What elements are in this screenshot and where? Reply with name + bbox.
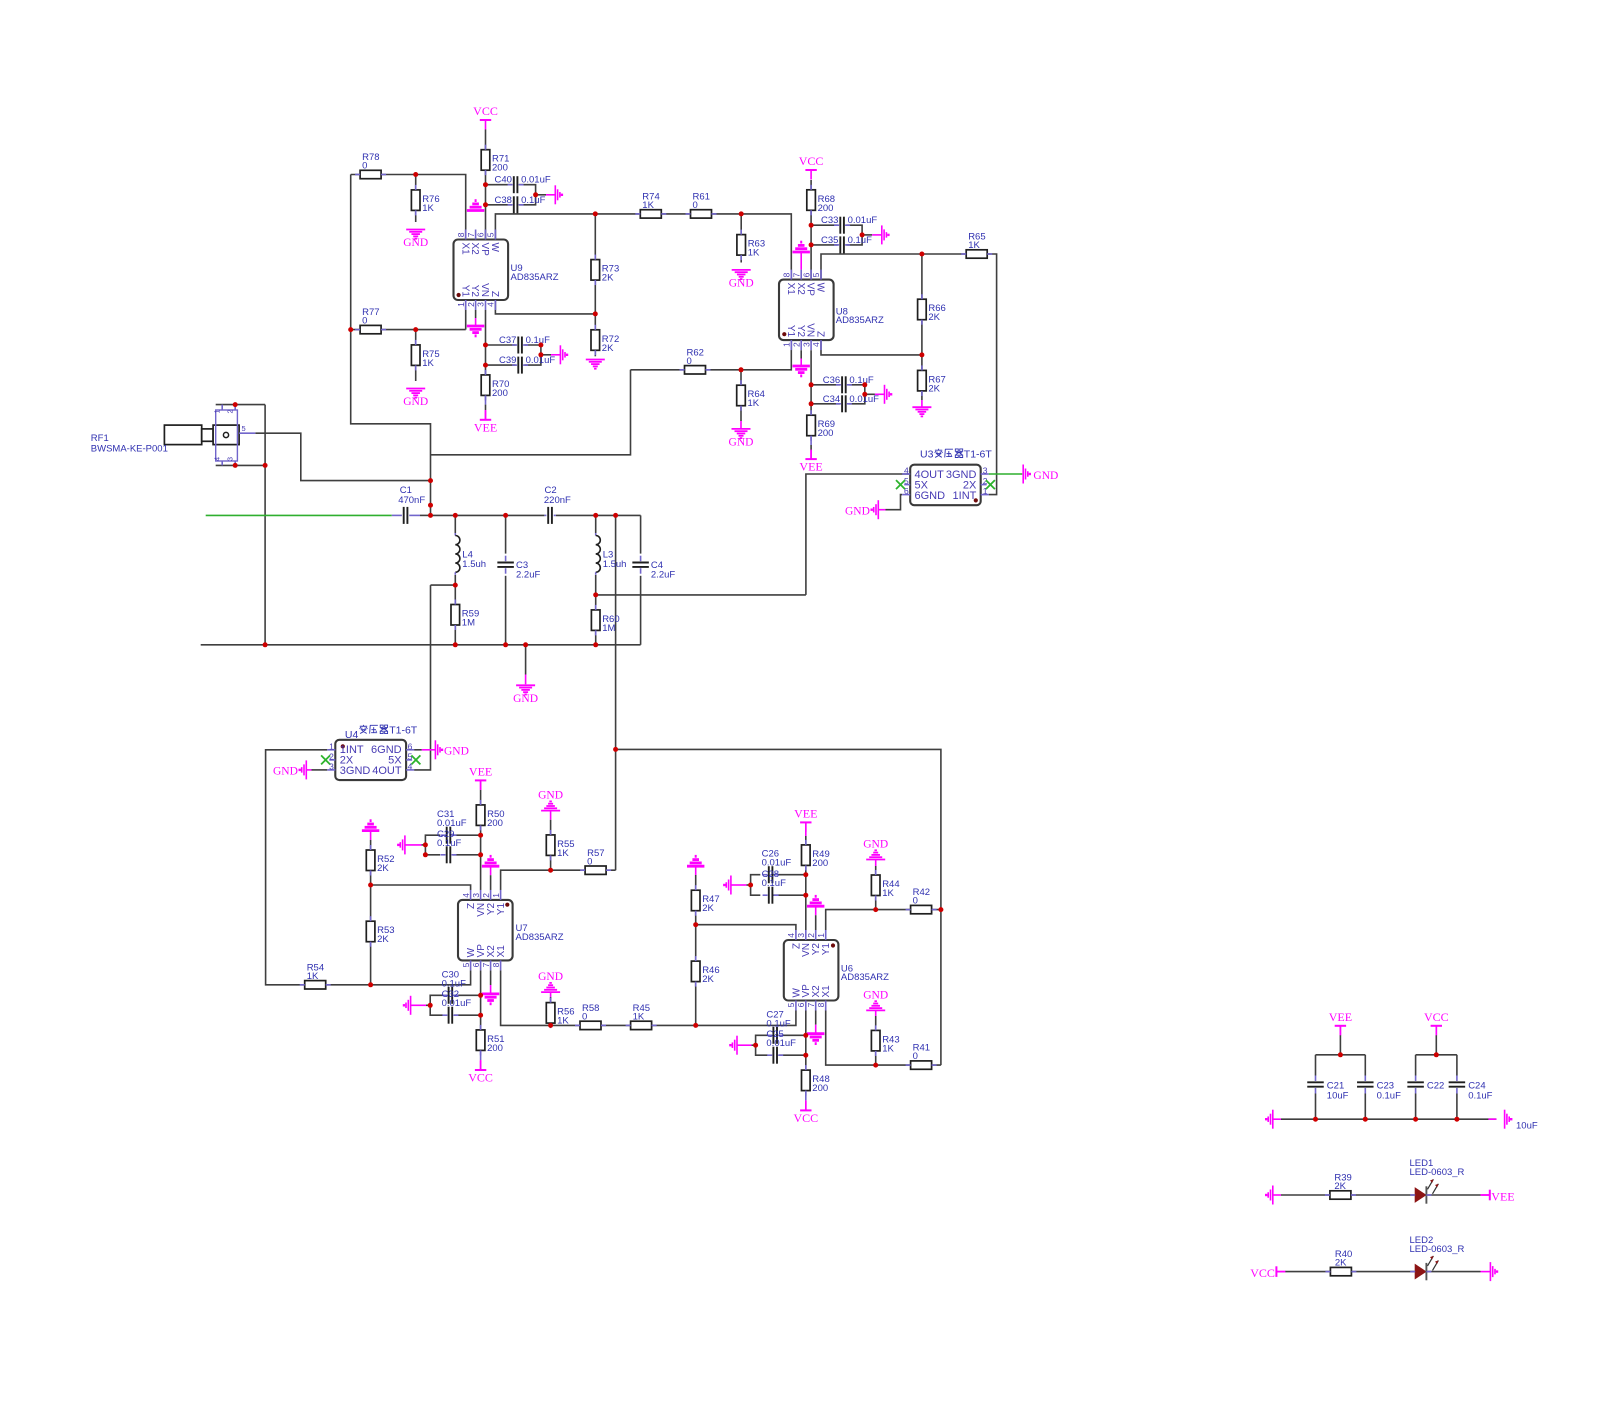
wire C27/C25 join to flag <box>756 1035 768 1055</box>
transformer U4 label <box>360 725 388 734</box>
svg-text:X1: X1 <box>785 283 796 296</box>
wire C40/C38 join to flag <box>519 185 536 205</box>
wire R67 to GND <box>921 355 923 371</box>
svg-text:VEE: VEE <box>799 460 822 474</box>
svg-text:VP: VP <box>805 283 816 297</box>
power flag VEE <box>799 450 822 474</box>
ground flag <box>1265 1186 1273 1205</box>
capacitor C24 <box>1449 1076 1493 1102</box>
wire R73/R72 column <box>594 214 596 314</box>
svg-text:BWSMA-KE-P001: BWSMA-KE-P001 <box>91 444 168 455</box>
svg-text:GND: GND <box>444 745 469 757</box>
svg-text:C22: C22 <box>1427 1081 1444 1092</box>
wire C29 branch <box>453 854 481 856</box>
U6 pin 8 (X1) <box>816 985 832 1011</box>
svg-text:GND: GND <box>729 277 754 289</box>
power flag VEE <box>474 410 497 434</box>
wire R75 stem <box>415 330 417 345</box>
capacitor C35 <box>821 235 872 254</box>
svg-text:1: 1 <box>456 302 466 307</box>
svg-text:6GND: 6GND <box>915 490 946 502</box>
svg-text:VEE: VEE <box>794 806 817 820</box>
capacitor C40 <box>494 175 550 194</box>
power flag VEE <box>469 764 492 790</box>
U6 pin 1 (Y1) <box>816 930 832 955</box>
U4 pin 3 (GND) <box>327 761 370 777</box>
svg-text:VEE: VEE <box>474 420 497 434</box>
svg-text:4: 4 <box>213 457 222 461</box>
U3 pin 4 (OUT) <box>902 465 944 481</box>
power flag VCC <box>468 1061 493 1085</box>
svg-text:1M: 1M <box>462 618 475 629</box>
resistor R63 <box>737 230 765 261</box>
capacitor C29 <box>441 846 457 863</box>
svg-text:VEE: VEE <box>1329 1010 1352 1024</box>
svg-text:3: 3 <box>329 761 334 771</box>
ground flag <box>1490 1262 1498 1281</box>
svg-text:4: 4 <box>486 302 496 307</box>
svg-text:5: 5 <box>786 1002 796 1007</box>
wire C22 column <box>1415 1055 1417 1076</box>
U8 pin 1 (Y1) <box>782 325 796 350</box>
svg-text:Y1: Y1 <box>821 943 832 956</box>
svg-text:2K: 2K <box>602 343 614 354</box>
svg-text:X1: X1 <box>496 945 507 958</box>
resistor R43 <box>871 1025 899 1056</box>
resistor R46 <box>691 956 719 987</box>
svg-text:Y1: Y1 <box>496 902 507 915</box>
wire C36/C34 join to flag <box>849 385 865 404</box>
U3 pin 6 (GND) <box>902 486 945 502</box>
svg-text:0.1uF: 0.1uF <box>521 195 545 206</box>
svg-text:0: 0 <box>587 856 592 867</box>
resistor R76 <box>411 185 439 216</box>
svg-text:4: 4 <box>408 761 413 771</box>
capacitor C33 <box>821 215 877 234</box>
wire U9 Z row <box>495 300 595 314</box>
wire W row U7 <box>326 970 471 984</box>
svg-text:0.01uF: 0.01uF <box>521 175 551 186</box>
svg-text:X1: X1 <box>459 243 470 256</box>
wire L4 node to U4 branch <box>431 584 456 586</box>
wire C33 branch <box>811 224 838 226</box>
wire R56 GND stem <box>550 992 552 997</box>
resistor R44 <box>871 870 899 901</box>
U8 pin 8 (X1) <box>782 270 796 296</box>
svg-text:2: 2 <box>481 893 491 898</box>
U9 pin 5 (W) <box>486 230 500 253</box>
capacitor C30 <box>442 987 458 1004</box>
svg-text:U3: U3 <box>920 449 934 461</box>
svg-text:0.1uF: 0.1uF <box>437 838 461 849</box>
svg-text:AD835ARZ: AD835ARZ <box>516 932 564 943</box>
wire decoupling rail <box>1281 1118 1496 1120</box>
svg-text:0: 0 <box>687 356 692 367</box>
svg-text:5: 5 <box>461 962 471 967</box>
wire C21 column <box>1315 1055 1317 1076</box>
svg-text:0.1uF: 0.1uF <box>1468 1091 1492 1102</box>
wire U9 X1 input row R78 <box>351 175 466 240</box>
wire C38 branch <box>486 204 513 206</box>
wire U8 W output row <box>821 254 966 280</box>
svg-text:6: 6 <box>801 272 811 277</box>
U8 pin 2 (Y2) <box>791 325 805 350</box>
wire C3 column <box>505 515 507 553</box>
resistor R65 <box>961 232 992 259</box>
ground flag <box>435 740 443 759</box>
U4 pin 5 (X) <box>388 751 412 766</box>
capacitor C27 <box>767 1027 783 1044</box>
U6 pin 5 (W) <box>786 988 802 1011</box>
resistor R69 <box>807 410 835 441</box>
svg-text:200: 200 <box>487 818 503 829</box>
no-connect X <box>411 755 420 764</box>
wire R50 to U7 VN pin3 <box>480 825 482 890</box>
svg-text:2K: 2K <box>702 974 714 985</box>
svg-text:0: 0 <box>913 1051 918 1062</box>
ground flag <box>1023 465 1031 484</box>
wire R66 column <box>921 254 923 355</box>
wire RF1 bottom <box>216 464 265 466</box>
wire VEE to R50 <box>480 780 482 790</box>
capacitor C37 <box>499 335 550 354</box>
wire C31 branch <box>453 834 481 836</box>
svg-text:Y1: Y1 <box>459 285 470 298</box>
resistor R55 <box>546 830 574 861</box>
svg-text:GND: GND <box>513 693 538 705</box>
wire R59 column <box>454 585 456 604</box>
ground <box>912 407 931 416</box>
resistor R62 <box>680 347 711 374</box>
ground <box>467 201 484 211</box>
wire C35 branch <box>811 244 838 246</box>
wire left feedback vertical <box>351 175 431 516</box>
wire C34 branch <box>811 403 840 405</box>
svg-text:10uF: 10uF <box>1327 1091 1349 1102</box>
svg-text:0.1uF: 0.1uF <box>526 335 550 346</box>
wire R71 to U9 VP pin6 <box>485 170 487 239</box>
svg-text:2.2uF: 2.2uF <box>516 570 540 581</box>
svg-text:GND: GND <box>538 790 563 802</box>
wire U6 VP pin6 column <box>805 1010 807 1070</box>
transformer U4 T1-6T body <box>335 729 406 780</box>
svg-text:3: 3 <box>983 465 988 475</box>
resistor R71 <box>481 145 509 176</box>
svg-text:4: 4 <box>786 933 796 938</box>
svg-text:200: 200 <box>818 203 834 214</box>
svg-text:2: 2 <box>466 302 476 307</box>
wire U8 pin7 ground stem <box>800 252 802 270</box>
svg-text:1K: 1K <box>633 1012 645 1023</box>
capacitor C28 <box>763 887 779 904</box>
svg-text:0.1uF: 0.1uF <box>1377 1091 1401 1102</box>
power flag VCC <box>799 154 824 180</box>
svg-text:2K: 2K <box>1334 1181 1346 1192</box>
resistor R72 <box>591 325 619 356</box>
svg-text:1: 1 <box>782 342 792 347</box>
wire C36 branch <box>811 384 840 386</box>
svg-text:1K: 1K <box>557 848 569 859</box>
svg-text:2K: 2K <box>602 273 614 284</box>
svg-text:0.1uF: 0.1uF <box>848 235 872 246</box>
svg-text:1: 1 <box>329 741 334 751</box>
svg-text:200: 200 <box>818 428 834 439</box>
wire C4 column <box>640 515 642 553</box>
wire C39 branch <box>486 364 516 366</box>
ground <box>403 389 428 409</box>
ground <box>863 989 888 1010</box>
resistor R48 <box>802 1065 830 1096</box>
svg-text:1: 1 <box>213 409 222 413</box>
no-connect X <box>896 480 905 489</box>
svg-text:2: 2 <box>791 342 801 347</box>
svg-text:1M: 1M <box>602 623 615 634</box>
wire ground rail <box>201 644 641 646</box>
ground <box>482 856 499 866</box>
ground <box>729 429 754 449</box>
ground flag <box>723 876 731 895</box>
op-amp U8 AD835ARZ body <box>779 280 884 341</box>
wire R76 to GND <box>415 210 417 222</box>
ground <box>793 366 810 376</box>
capacitor C36 <box>823 375 874 394</box>
connector RF1 BWSMA-KE-P001 <box>91 405 256 466</box>
wire R72 to GND <box>594 314 596 330</box>
resistor R51 <box>476 1025 504 1056</box>
svg-text:3: 3 <box>476 302 486 307</box>
svg-text:LED-0603_R: LED-0603_R <box>1410 1244 1465 1255</box>
wire U7 pin7 ground stem <box>490 970 492 985</box>
resistor R41 <box>906 1043 937 1070</box>
svg-text:Y2: Y2 <box>469 285 480 298</box>
wire C1 to filter row <box>420 514 431 516</box>
wire R55 stem <box>550 855 552 870</box>
LED LED1 <box>1410 1158 1465 1204</box>
wire C30/C32 join to flag <box>430 995 442 1015</box>
ground <box>729 270 754 290</box>
svg-text:1K: 1K <box>642 200 654 211</box>
wire C24 column <box>1456 1055 1458 1076</box>
transformer U3 T1-6T body <box>910 449 981 506</box>
wire U9 W output row <box>495 214 791 280</box>
ground flag <box>1505 1110 1513 1129</box>
svg-text:T1-6T: T1-6T <box>389 725 418 737</box>
svg-text:2K: 2K <box>377 934 389 945</box>
svg-text:2K: 2K <box>377 863 389 874</box>
wire RF1 pin5 to C1 node <box>255 433 430 480</box>
wire U6 Y1 to R44 row <box>826 910 941 930</box>
svg-text:7: 7 <box>806 1002 816 1007</box>
ground <box>863 839 888 860</box>
resistor R74 <box>635 192 666 219</box>
svg-text:10uF: 10uF <box>1516 1121 1538 1132</box>
wire U8 Z row <box>821 340 922 355</box>
svg-text:VEE: VEE <box>469 764 492 778</box>
svg-text:GND: GND <box>1033 470 1058 482</box>
wire U7 pin2 ground stem <box>490 866 492 875</box>
U3 pin 3 (GND) <box>946 465 989 481</box>
wire U4 pin1 to R54 <box>266 750 328 985</box>
svg-text:W: W <box>815 283 826 293</box>
U9 pin 8 (X1) <box>456 230 470 256</box>
wire U7 X1 output row <box>501 970 796 1025</box>
wire filter row <box>431 514 545 516</box>
ground <box>807 1034 824 1044</box>
U9 pin 3 (VN) <box>476 283 490 310</box>
svg-text:W: W <box>489 243 500 253</box>
U9 pin 2 (Y2) <box>466 285 480 310</box>
svg-text:4: 4 <box>461 893 471 898</box>
U7 pin 6 (VP) <box>471 944 487 971</box>
svg-text:X2: X2 <box>469 243 480 256</box>
svg-text:470nF: 470nF <box>398 495 425 506</box>
resistor R61 <box>686 192 717 219</box>
wire C33/C35 join to flag <box>846 225 862 245</box>
resistor R64 <box>737 380 765 411</box>
svg-text:0.01uF: 0.01uF <box>848 215 878 226</box>
ground flag <box>403 996 411 1015</box>
wire C23 column <box>1364 1055 1366 1076</box>
wire U9 pin1 drop <box>465 300 467 330</box>
svg-text:Z: Z <box>489 291 500 297</box>
svg-text:GND: GND <box>403 237 428 249</box>
resistor R66 <box>918 294 946 325</box>
ground <box>362 821 379 831</box>
wire U8 pin2 to ground <box>800 350 802 358</box>
resistor R67 <box>918 365 946 396</box>
svg-text:5: 5 <box>486 232 496 237</box>
ground <box>513 685 538 705</box>
ground <box>538 790 563 811</box>
wire R68 to U8 VP pin6 <box>810 210 812 279</box>
wire U7 VP pin6 column <box>480 970 482 1030</box>
svg-text:2: 2 <box>226 409 235 413</box>
capacitor C2 <box>544 485 571 524</box>
wire R62 left branch <box>431 370 631 455</box>
svg-text:8: 8 <box>491 962 501 967</box>
svg-text:3: 3 <box>796 933 806 938</box>
svg-text:0.01uF: 0.01uF <box>437 818 467 829</box>
wire U8 Y1 row R62 <box>631 340 792 370</box>
svg-text:6: 6 <box>796 1002 806 1007</box>
resistor R42 <box>906 887 937 914</box>
resistor R47 <box>691 885 719 916</box>
svg-text:1K: 1K <box>968 240 980 251</box>
svg-text:4OUT: 4OUT <box>372 765 402 777</box>
wire VCC to R68 <box>810 180 812 190</box>
transformer U3 label <box>935 449 963 458</box>
wire U8 VN pin3 column <box>810 350 812 415</box>
resistor R59 <box>451 600 479 631</box>
svg-text:200: 200 <box>812 1083 828 1094</box>
svg-text:2.2uF: 2.2uF <box>651 570 675 581</box>
capacitor C21 <box>1307 1076 1348 1102</box>
wire C32 branch <box>454 1014 481 1016</box>
svg-text:1.5uh: 1.5uh <box>603 559 627 570</box>
wire VEE to C21/C23 <box>1316 1054 1366 1056</box>
svg-text:7: 7 <box>466 232 476 237</box>
svg-text:0: 0 <box>582 1012 587 1023</box>
svg-text:VN: VN <box>479 283 490 297</box>
U9 pin 4 (Z) <box>486 291 500 310</box>
ground flag <box>560 345 568 364</box>
power flag VCC <box>1250 1266 1285 1280</box>
svg-text:0: 0 <box>913 896 918 907</box>
svg-text:1.5uh: 1.5uh <box>462 559 486 570</box>
wire U4 pin3 to GND flag <box>312 769 328 771</box>
svg-text:8: 8 <box>456 232 466 237</box>
svg-text:0: 0 <box>362 161 367 172</box>
wire R52 ground stem <box>370 831 372 840</box>
U4 pin 2 (X) <box>329 751 354 766</box>
op-amp U6 AD835ARZ body <box>784 940 889 1001</box>
svg-text:C33: C33 <box>821 215 838 226</box>
U8 pin 6 (VP) <box>801 270 815 297</box>
resistor R56 <box>546 998 574 1029</box>
no-connect X <box>321 755 330 764</box>
svg-text:GND: GND <box>403 396 428 408</box>
U4 pin 1 (INT) <box>327 741 364 756</box>
svg-text:T1-6T: T1-6T <box>964 449 993 461</box>
wire C26/C28 join to flag <box>751 875 761 896</box>
wire U6 pin2 ground stem <box>815 906 817 915</box>
wire LED1 row <box>1281 1194 1330 1196</box>
svg-text:200: 200 <box>492 163 508 174</box>
wire U6 pin7 ground stem <box>815 1010 817 1024</box>
ground <box>482 994 499 1004</box>
ground <box>687 856 704 866</box>
U3 pin 1 (INT) <box>953 486 989 502</box>
svg-text:1K: 1K <box>557 1016 569 1027</box>
power flag VCC <box>473 104 498 130</box>
svg-text:0.1uF: 0.1uF <box>442 978 466 989</box>
ground <box>403 230 428 250</box>
power flag VCC <box>1424 1010 1449 1036</box>
svg-text:AD835ARZ: AD835ARZ <box>511 272 559 283</box>
wire R63 stem <box>740 214 742 235</box>
svg-text:5: 5 <box>811 272 821 277</box>
svg-text:5: 5 <box>242 424 246 433</box>
svg-text:2K: 2K <box>928 383 940 394</box>
svg-text:2K: 2K <box>702 903 714 914</box>
wire R52/R53 junction row to U7 Z <box>370 871 372 922</box>
U7 pin 7 (X2) <box>481 945 497 971</box>
resistor R77 <box>355 307 386 334</box>
wire C31/C29 join to flag <box>425 835 440 855</box>
wire R55 GND stem <box>550 811 552 820</box>
wire VCC to C22/C24 <box>1416 1054 1457 1056</box>
wire R69 to VEE <box>810 436 812 445</box>
wire R60 column <box>595 595 597 610</box>
wire U9 pin2 to ground <box>475 310 477 318</box>
svg-text:C40: C40 <box>494 175 511 186</box>
wire R76 stem <box>415 175 417 190</box>
svg-text:0.1uF: 0.1uF <box>766 1018 790 1029</box>
U7 pin 1 (Y1) <box>491 890 507 915</box>
svg-text:0.1uF: 0.1uF <box>762 878 786 889</box>
svg-text:0: 0 <box>362 316 367 327</box>
U8 pin 7 (X2) <box>791 270 805 296</box>
svg-text:200: 200 <box>487 1043 503 1054</box>
U9 pin 6 (VP) <box>476 230 490 257</box>
capacitor C25 <box>767 1047 783 1064</box>
svg-text:0: 0 <box>693 200 698 211</box>
U9 pin 7 (X2) <box>466 230 480 256</box>
wire R48 to VCC <box>805 1091 807 1101</box>
wire U4 pin6 to GND flag <box>414 749 422 751</box>
svg-text:1K: 1K <box>882 1043 894 1054</box>
resistor R75 <box>411 340 439 371</box>
